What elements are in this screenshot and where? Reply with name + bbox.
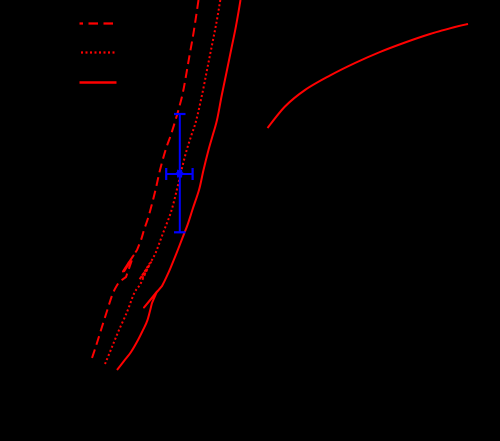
legend solid sample bbox=[80, 81, 117, 83]
legend dashed sample bbox=[80, 22, 117, 24]
solid curve bbox=[117, 0, 241, 370]
solid curve switchback sliver bbox=[144, 286, 162, 308]
dashed curve bbox=[92, 0, 199, 358]
blue star marker bbox=[175, 169, 185, 177]
dotted curve switchback dense row bbox=[142, 262, 152, 281]
blue error bar horizontal line bbox=[166, 173, 192, 175]
top-right solid curve bbox=[268, 24, 469, 128]
blue error bar left cap bbox=[165, 168, 167, 180]
blue error bar top cap bbox=[174, 113, 186, 115]
dashed curve switchback sliver bbox=[124, 262, 130, 272]
blue error bar right cap bbox=[192, 168, 194, 180]
blue error bar vertical line bbox=[179, 114, 181, 232]
dotted curve bbox=[105, 0, 220, 364]
blue error bar bottom cap bbox=[174, 231, 186, 233]
legend dotted sample bbox=[81, 51, 116, 53]
